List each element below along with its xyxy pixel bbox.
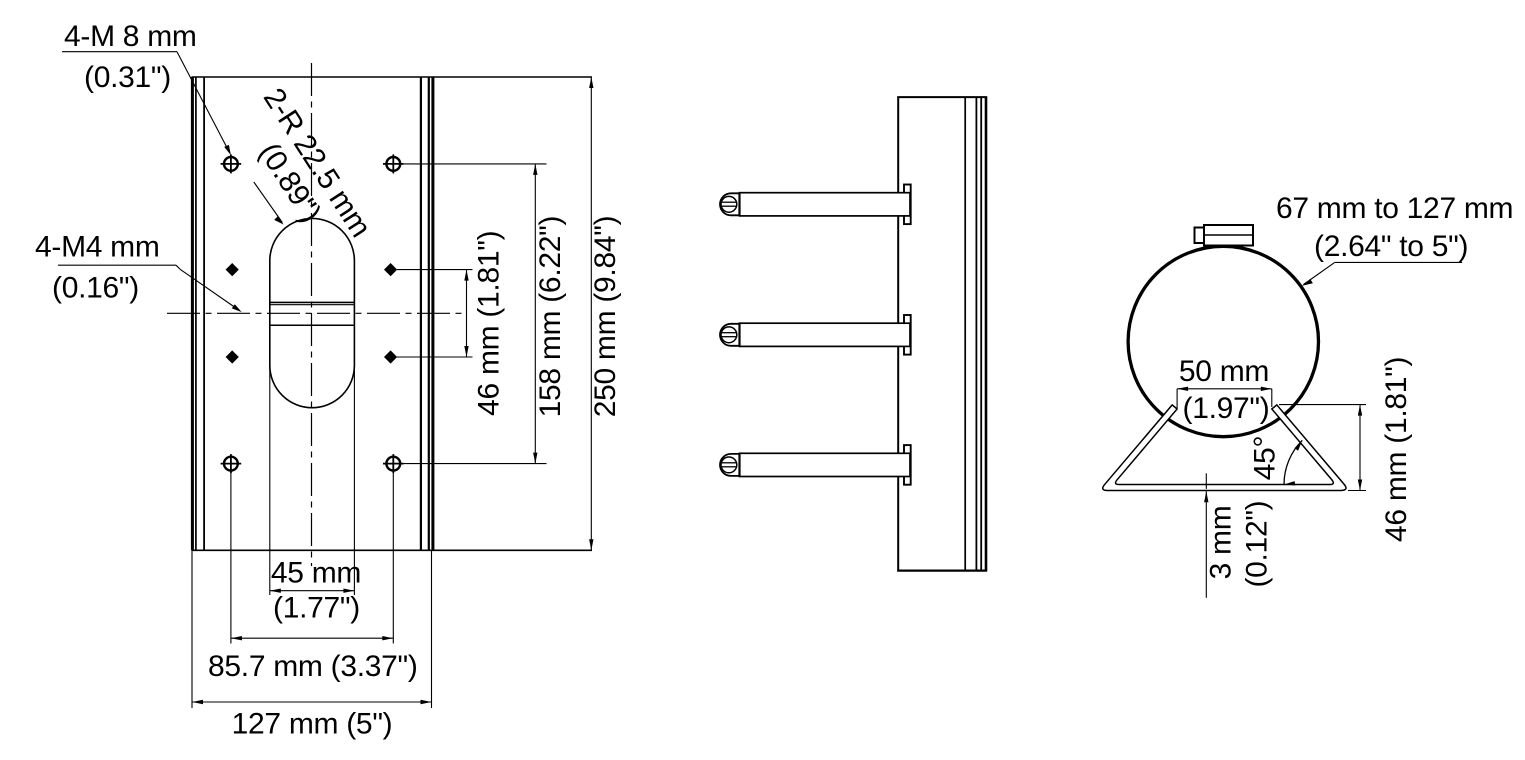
clamp screw housing (1204, 225, 1253, 246)
dim 250mm arrow bottom (589, 539, 593, 550)
dim 46mm connector bottom (397, 356, 473, 358)
screw 3 head circle (738, 453, 740, 477)
leader 3mm vertical line (1205, 491, 1207, 598)
svg-text:(0.12"): (0.12") (1241, 501, 1274, 588)
dim 46mm arrow top (464, 270, 468, 281)
leader line to circle (1304, 262, 1335, 284)
svg-text:(2.64" to 5"): (2.64" to 5") (1314, 230, 1468, 263)
dim 85.7mm arrow right (382, 636, 393, 640)
plate bottom edge (192, 549, 593, 551)
svg-text:85.7 mm (3.37"): 85.7 mm (3.37") (208, 650, 418, 683)
45 arc arrow top (1295, 440, 1303, 450)
svg-text:127 mm (5"): 127 mm (5") (232, 708, 393, 741)
dim 46mm connector top (397, 269, 473, 271)
plate left outer edge (191, 77, 194, 550)
plate top edge (192, 76, 593, 78)
slot (stadium) (270, 218, 355, 407)
dim 158mm extension top (404, 163, 547, 165)
dim 46mm top extension (1279, 404, 1366, 406)
horizontal centerline (167, 312, 467, 314)
extension line plate right edge down (431, 550, 433, 708)
svg-text:250 mm (9.84"): 250 mm (9.84") (589, 216, 622, 418)
dim 158mm arrow top (533, 164, 537, 175)
V-bracket (bent strip) (1103, 405, 1346, 491)
side plate bottom edge (897, 569, 987, 571)
screw 1 shaft (740, 193, 911, 216)
dim 158mm line (534, 164, 536, 464)
leader underline for 4-M 8 mm (62, 51, 177, 53)
diamond hole M4 bottom-right (385, 351, 397, 363)
svg-text:158 mm (6.22"): 158 mm (6.22") (534, 216, 567, 418)
svg-text:46 mm (1.81"): 46 mm (1.81") (473, 231, 506, 416)
leader line for 2-R label (254, 182, 282, 223)
dim 50mm extension drop right (1271, 389, 1273, 407)
dim 158mm arrow bottom (533, 453, 537, 464)
dim 85.7mm arrow left (231, 636, 242, 640)
svg-text:46 mm (1.81"): 46 mm (1.81") (1380, 357, 1413, 542)
45 arc arrow bottom (1284, 481, 1295, 485)
dim 46mm arrow top (1358, 405, 1362, 416)
leader 3mm overshoot (1205, 473, 1207, 489)
svg-text:4-M4 mm: 4-M4 mm (35, 231, 160, 264)
hole cross top-right (M8) (383, 154, 404, 173)
dim 50mm line (1177, 388, 1272, 390)
dim 127mm arrow right (421, 700, 432, 704)
extension line bottom-right cross down (392, 472, 394, 644)
screw 1 flange (904, 185, 911, 225)
side plate inner line (964, 97, 966, 570)
diamond hole M4 bottom-left (226, 351, 238, 363)
dim 127mm line (192, 701, 432, 703)
screw 2 head (720, 324, 740, 346)
vertical centerline (311, 63, 313, 566)
screw 3 slot lines (721, 462, 736, 464)
screw 1 head (720, 193, 740, 215)
hole cross top-left (M8) (221, 154, 242, 173)
plate left edge second line (195, 77, 197, 550)
hole cross bottom-right (M8) (383, 454, 404, 473)
screw 3 shaft (740, 453, 911, 476)
svg-text:3 mm: 3 mm (1205, 506, 1238, 580)
pole strap circle (1128, 246, 1318, 436)
dim 250mm line (590, 77, 592, 550)
dim 127mm arrow left (192, 700, 203, 704)
svg-text:(0.16"): (0.16") (52, 272, 139, 305)
dim 45mm arrow left (270, 589, 281, 593)
dim 85.7mm line (231, 637, 393, 639)
dim 250mm arrow top (589, 77, 593, 88)
dim 46mm bottom extension (1348, 490, 1366, 492)
screw 2 slot lines (721, 332, 736, 334)
leader underline 67mm label (1335, 261, 1462, 263)
leader arrow at circle (1302, 279, 1313, 286)
clamp housing left tab (1195, 228, 1205, 244)
leader line to top-left hole (177, 52, 230, 153)
leader arrow at top-left hole (224, 145, 231, 155)
dim 50mm extension drop left (1176, 389, 1178, 408)
dim 46mm arrow bottom (1358, 480, 1362, 491)
diamond hole M4 top-left (226, 264, 238, 276)
dim 46mm line right (1359, 405, 1361, 491)
dim 46mm arrow bottom (464, 346, 468, 357)
leader arrow for 2-R label (274, 216, 284, 225)
screw 2 shaft (740, 323, 911, 346)
svg-text:(1.77"): (1.77") (273, 592, 360, 625)
extension line plate left edge down (191, 550, 193, 708)
rotated label 2-R 22.5 mm (0.89") (229, 82, 377, 261)
screw 2 head circle (738, 323, 740, 347)
svg-text:45°: 45° (1249, 436, 1282, 480)
screw 1 slot lines (721, 201, 736, 203)
plate right outer edge (431, 77, 434, 550)
diamond hole M4 top-right (385, 264, 397, 276)
right bend line A (420, 77, 422, 550)
svg-text:67 mm to 127 mm: 67 mm to 127 mm (1276, 192, 1513, 225)
clamp housing mid line (1204, 234, 1253, 236)
extension line bottom-left cross down (230, 472, 232, 644)
side plate bend line B (980, 97, 982, 570)
svg-text:4-M 8 mm: 4-M 8 mm (64, 20, 197, 53)
svg-text:(0.31"): (0.31") (84, 61, 171, 94)
dim 45mm arrow right (343, 589, 354, 593)
leader elbow 4-M4 (176, 265, 180, 269)
45 degree arc (1284, 440, 1302, 484)
svg-text:(1.97"): (1.97") (1183, 392, 1270, 425)
side plate right edge (985, 97, 988, 570)
slot strap line lower (270, 324, 355, 326)
dim 46mm line (466, 270, 468, 357)
slot left extension line (269, 365, 271, 595)
slot strap line upper inner (270, 304, 355, 306)
side plate left edge (front face) (897, 97, 899, 570)
hole cross bottom-left (M8) (221, 454, 242, 473)
leader line to centerline (180, 269, 239, 310)
dim 45mm line (270, 590, 355, 592)
slot strap line upper outer (270, 301, 355, 303)
svg-text:45 mm: 45 mm (271, 557, 361, 590)
screw 3 head (720, 454, 740, 476)
slot right extension line (353, 365, 355, 595)
leader arrow 4-M4 (232, 304, 242, 312)
plate left inner bend line (203, 77, 205, 550)
screw 2 flange (904, 315, 911, 355)
screw 3 flange (904, 445, 911, 485)
dim 158mm extension bottom (404, 463, 547, 465)
dim 50mm arrow right (1261, 387, 1272, 391)
svg-text:50 mm: 50 mm (1179, 355, 1269, 388)
dim 50mm arrow left (1177, 387, 1188, 391)
screw 1 head circle (738, 192, 740, 216)
right bend line B (428, 77, 430, 550)
leader underline for 4-M4 mm (58, 264, 176, 266)
side plate bend line A (975, 97, 977, 570)
leader 3mm arrow (1204, 491, 1208, 502)
side plate top edge (897, 96, 987, 98)
